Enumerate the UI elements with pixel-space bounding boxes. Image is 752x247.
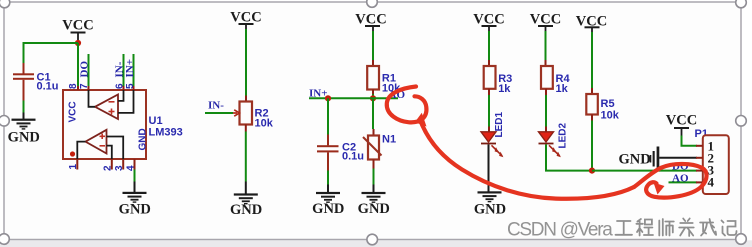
wire VCC1 to C1 — [24, 42, 79, 64]
svg-text:LM393: LM393 — [149, 127, 183, 139]
node junction pin1 — [70, 151, 75, 156]
ground N1 — [358, 192, 390, 217]
svg-text:VCC: VCC — [666, 113, 697, 129]
svg-text:GND: GND — [312, 201, 344, 217]
svg-text:0.1u: 0.1u — [37, 81, 59, 93]
wire R5 to DO net — [591, 115, 593, 171]
resistor R3 — [484, 66, 513, 95]
svg-text:IN+: IN+ — [309, 88, 328, 100]
wire U1B plus input to pin3 — [107, 137, 124, 160]
svg-text:1k: 1k — [498, 83, 511, 95]
svg-text:VCC: VCC — [62, 18, 93, 34]
power VCC1 — [62, 18, 93, 44]
pin 4 — [125, 159, 136, 171]
wire VCC2 to R2 — [245, 29, 247, 102]
svg-text:6: 6 — [114, 83, 125, 89]
wire VCC3 to R1 — [372, 31, 374, 66]
svg-text:7: 7 — [79, 83, 90, 89]
svg-text:LED2: LED2 — [558, 123, 569, 149]
svg-text:VCC: VCC — [68, 101, 79, 122]
resistor R4 — [541, 66, 570, 95]
power VCC4 — [473, 12, 504, 32]
wire pin6 to U1A inverting input — [118, 90, 124, 101]
wire R1 to node — [372, 90, 374, 99]
annotation arrowhead — [415, 113, 427, 127]
svg-text:5: 5 — [125, 83, 136, 89]
pin 1 — [68, 159, 79, 170]
resistor R2 — [240, 102, 274, 130]
wire LED1 to ground — [488, 144, 490, 191]
wire R2 to ground — [245, 125, 247, 194]
wire pin4 to ground — [134, 170, 136, 193]
wire VCC4 to R3 — [488, 31, 490, 66]
op-amp U1A — [95, 95, 118, 120]
wire U1B minus input to pin2 — [107, 146, 112, 159]
wire IN- to R2 wiper — [205, 110, 239, 116]
resistor R5 — [586, 94, 619, 122]
capacitor C1 — [13, 63, 59, 101]
svg-text:CSDN @Vera: CSDN @Vera — [507, 220, 613, 241]
ground R2 — [230, 193, 262, 217]
svg-text:1k: 1k — [556, 83, 569, 95]
power VCC2 — [230, 10, 261, 30]
LED1 — [481, 112, 505, 158]
wire C1 to ground — [23, 101, 25, 113]
watermark — [507, 219, 737, 241]
ground P1 sideways — [619, 147, 660, 172]
wire VCC5 to R4 — [545, 31, 547, 66]
svg-text:U1: U1 — [149, 115, 163, 127]
annotation loop arrowhead — [654, 183, 665, 195]
wire U1B output to pin1 — [77, 142, 85, 159]
wire pin7 DO stub — [88, 54, 90, 90]
svg-text:GND: GND — [474, 201, 506, 217]
svg-text:LED1: LED1 — [494, 112, 505, 138]
wire DO net to pin3 — [592, 170, 697, 172]
svg-text:IN-: IN- — [208, 100, 224, 112]
wire IN+ horizontal — [309, 97, 398, 99]
capacitor C2 — [317, 141, 364, 170]
annotation curve to connector — [421, 121, 635, 199]
svg-text:N1: N1 — [382, 134, 396, 146]
svg-text:GND: GND — [119, 202, 151, 218]
wire pin5 IN+ stub — [133, 54, 135, 90]
wire AO to pin4 — [669, 181, 698, 183]
pin 3 — [114, 159, 125, 171]
ground LED1 — [474, 191, 506, 217]
wire pin8 VCC — [77, 43, 79, 90]
svg-text:2: 2 — [103, 165, 114, 171]
power VCC5 — [530, 12, 561, 32]
ground C1 — [8, 113, 40, 146]
svg-text:GND: GND — [619, 152, 651, 168]
wire node to N1 — [372, 98, 375, 135]
svg-text:GND: GND — [230, 202, 262, 218]
wire R4 to LED2 — [545, 89, 547, 132]
op-amp U1B — [86, 130, 107, 154]
LED2 — [539, 123, 569, 158]
svg-text:10k: 10k — [601, 110, 620, 122]
connector P1 — [695, 128, 729, 194]
resistor R1 — [367, 66, 401, 94]
svg-text:AO: AO — [672, 172, 689, 184]
wire pin6 IN- stub — [123, 54, 125, 90]
svg-text:3: 3 — [114, 165, 125, 171]
wire pin5 to U1A noninverting input — [118, 90, 134, 113]
svg-text:GND: GND — [358, 201, 390, 217]
svg-text:GND: GND — [8, 130, 40, 146]
svg-text:GND: GND — [137, 128, 148, 150]
svg-text:10k: 10k — [255, 118, 274, 130]
wire LED2 to DO net — [546, 144, 592, 170]
power VCC7 — [666, 113, 697, 136]
svg-text:R5: R5 — [601, 98, 615, 110]
svg-text:8: 8 — [68, 83, 79, 89]
annotation circle around AO node — [387, 87, 427, 123]
op-amp U1 LM393 — [63, 90, 183, 159]
power VCC3 — [355, 12, 386, 32]
thermistor N1 — [363, 134, 396, 160]
wire ground to pin2 — [659, 157, 697, 159]
annotation loop around AO pin — [634, 164, 707, 198]
node VCC1 junction — [75, 40, 81, 46]
wire VCC6 to R5 — [591, 32, 593, 94]
wire node to C2 — [327, 98, 329, 145]
wire VCC7 to pin1 — [682, 136, 698, 146]
svg-text:0.1u: 0.1u — [342, 150, 364, 162]
node AO junction — [370, 95, 376, 101]
pin 2 — [103, 159, 114, 171]
ground C2 — [312, 192, 344, 217]
wire R3 to LED1 — [488, 89, 490, 132]
wire U1A output to pin7 — [89, 90, 96, 107]
wire C2 to ground — [327, 171, 329, 193]
power VCC6 — [576, 13, 607, 33]
wire N1 to ground — [373, 160, 375, 193]
ground U1 — [119, 192, 151, 218]
node C2 junction — [325, 95, 331, 101]
svg-text:IN+: IN+ — [124, 59, 136, 78]
node DO junction — [589, 168, 595, 174]
svg-text:1: 1 — [68, 164, 79, 170]
svg-text:DO: DO — [79, 61, 91, 78]
